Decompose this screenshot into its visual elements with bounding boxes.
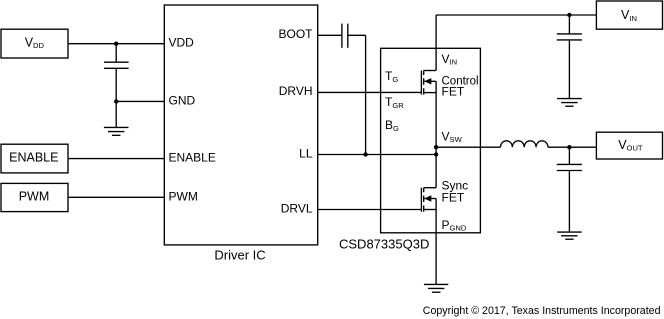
svg-text:VDD: VDD	[169, 35, 195, 49]
transistor Q2 Sync FET	[421, 188, 436, 212]
terminal box PWM	[1, 183, 68, 211]
svg-text:Driver IC: Driver IC	[214, 248, 265, 263]
wire inductor to VOUT box	[548, 146, 597, 148]
wire LL pin to VSW node	[318, 154, 436, 156]
wire GND node down	[115, 101, 117, 127]
capacitor C2 (bootstrap)	[342, 24, 348, 48]
svg-text:PWM: PWM	[19, 189, 50, 203]
node VIN cap junction	[567, 13, 571, 17]
transistor Q1 Control FET	[421, 71, 436, 95]
svg-text:CSD87335Q3D: CSD87335Q3D	[339, 237, 429, 252]
wire PWM box to driver	[68, 196, 164, 198]
node VSW junction lower	[434, 152, 438, 156]
node VSW junction upper	[434, 145, 438, 149]
wire Q1 body-source spine down through VSW to Q2 drain	[435, 81, 437, 187]
terminal box ENABLE	[1, 144, 68, 173]
inductor L1	[501, 141, 548, 147]
terminal box VDD	[1, 29, 68, 58]
svg-text:DRVH: DRVH	[279, 84, 313, 98]
ground symbol G1	[104, 127, 129, 135]
wire DRVL pin to BG gate	[318, 209, 422, 211]
capacitor C1 (VDD bypass)	[104, 62, 129, 68]
wire VOUT node down to capacitor C4	[568, 147, 570, 164]
wire junction down to capacitor C1	[115, 44, 117, 63]
svg-text:LL: LL	[299, 146, 313, 160]
wire VSW to inductor	[436, 146, 500, 148]
power block CSD87335Q3D box	[381, 48, 481, 233]
terminal box VIN	[596, 1, 662, 29]
wire C3 to ground	[568, 40, 570, 99]
svg-text:BOOT: BOOT	[278, 27, 313, 41]
svg-text:PWM: PWM	[169, 189, 198, 203]
node VDD junction	[114, 42, 118, 46]
ground symbol G4 (PGND)	[424, 284, 448, 292]
svg-text:GND: GND	[169, 93, 196, 107]
ground symbol G3	[557, 232, 582, 239]
node boot/LL junction	[363, 152, 367, 156]
svg-text:ENABLE: ENABLE	[169, 151, 216, 165]
capacitor C4 (output)	[557, 164, 582, 170]
svg-text:FET: FET	[442, 84, 465, 98]
wire GND node to driver GND pin	[116, 100, 164, 102]
svg-text:Copyright © 2017, Texas Instru: Copyright © 2017, Texas Instruments Inco…	[423, 305, 661, 317]
wire VIN top rail	[436, 14, 596, 16]
driver IC U1 box	[164, 5, 317, 245]
terminal box VOUT	[596, 132, 662, 159]
svg-text:ENABLE: ENABLE	[9, 151, 58, 165]
svg-text:FET: FET	[442, 191, 465, 205]
node GND junction	[114, 99, 118, 103]
capacitor C3 (input)	[557, 34, 582, 40]
wire ENABLE box to driver	[68, 158, 164, 160]
wire DRVH pin to TG gate	[318, 91, 422, 93]
wire Q2 body-source spine down to ground	[435, 199, 437, 285]
wire VIN rail vertical to Q1 drain	[435, 15, 437, 71]
wire BOOT pin to capacitor C2	[318, 34, 342, 36]
node VOUT cap junction	[567, 145, 571, 149]
wire VDD box to driver	[68, 43, 164, 45]
wire C4 to ground	[568, 171, 570, 233]
svg-text:DRVL: DRVL	[281, 201, 313, 215]
wire C2 to corner	[348, 34, 366, 36]
wire C1 to GND node	[115, 68, 117, 101]
wire VIN node down to capacitor C3	[568, 15, 570, 34]
wire boot corner down to LL	[365, 35, 367, 154]
ground symbol G2	[557, 99, 582, 107]
